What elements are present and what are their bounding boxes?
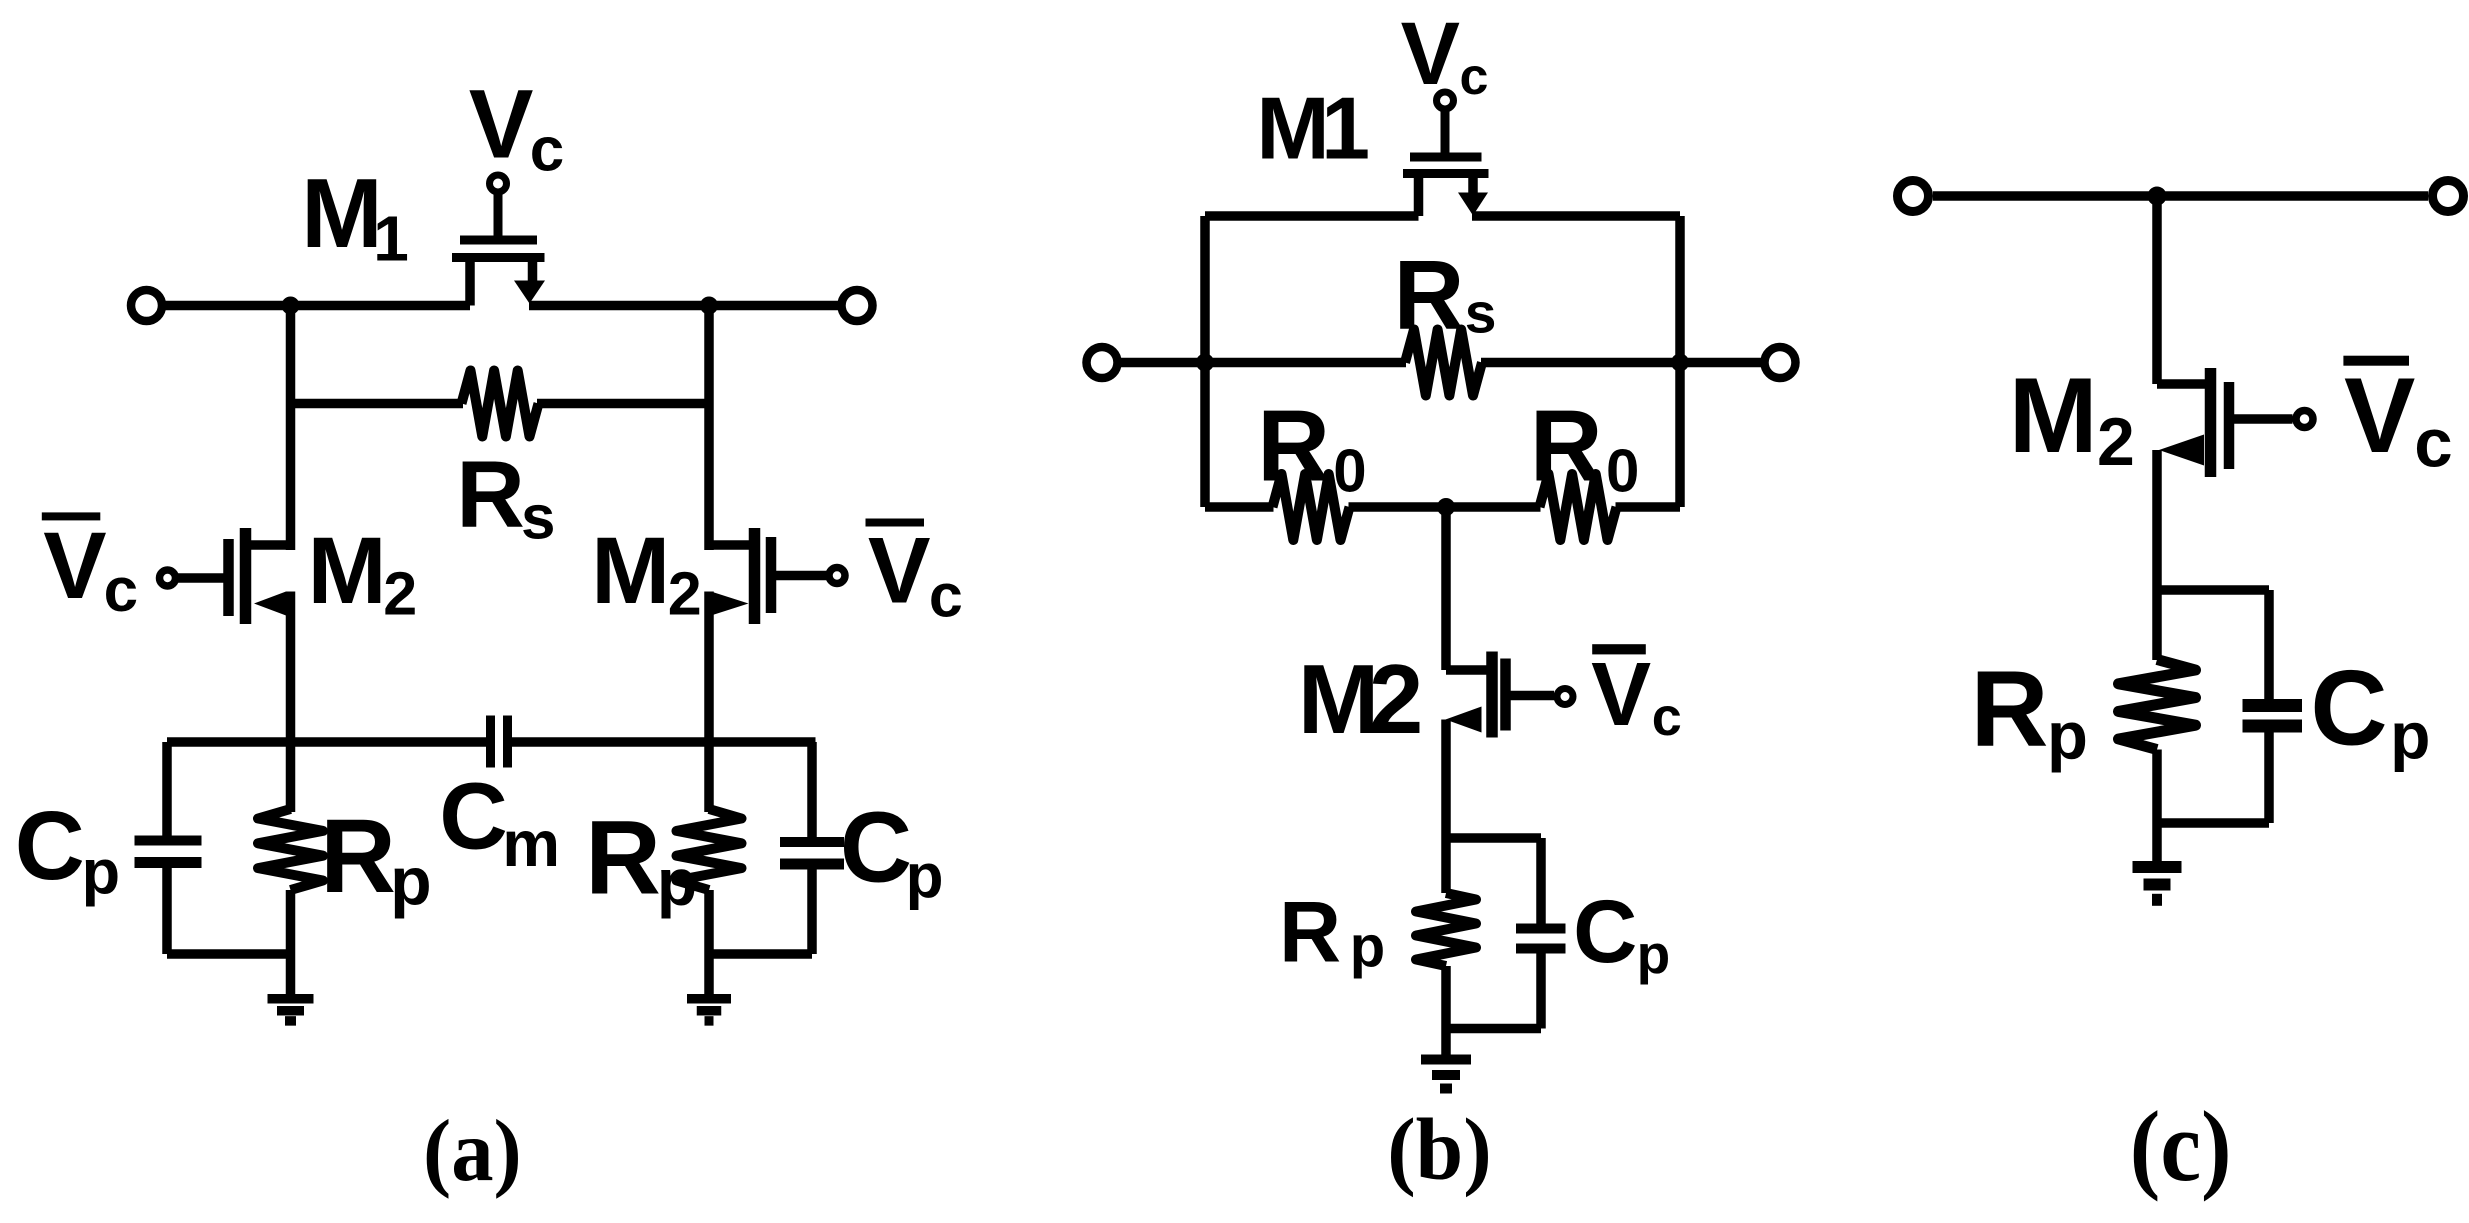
svg-text:c: c xyxy=(2414,405,2452,482)
svg-text:(a): (a) xyxy=(423,1103,522,1200)
svg-text:V: V xyxy=(43,513,106,619)
svg-text:R: R xyxy=(320,798,396,915)
svg-text:c: c xyxy=(1460,48,1489,106)
svg-text:(b): (b) xyxy=(1387,1102,1492,1199)
svg-text:p: p xyxy=(1350,914,1385,979)
svg-text:m: m xyxy=(502,807,560,880)
svg-text:c: c xyxy=(530,116,564,185)
svg-text:c: c xyxy=(929,561,963,629)
svg-text:V: V xyxy=(469,69,534,178)
svg-text:M: M xyxy=(301,158,383,268)
svg-text:2: 2 xyxy=(1369,644,1424,754)
svg-text:C: C xyxy=(1573,881,1637,981)
svg-text:V: V xyxy=(1591,645,1651,745)
svg-text:R: R xyxy=(456,442,525,548)
svg-text:M: M xyxy=(591,518,670,624)
svg-text:R: R xyxy=(1279,885,1341,981)
svg-text:p: p xyxy=(906,842,944,911)
svg-text:p: p xyxy=(657,845,697,919)
svg-text:p: p xyxy=(2047,698,2088,773)
svg-text:s: s xyxy=(521,483,555,552)
svg-text:(c): (c) xyxy=(2130,1090,2232,1202)
svg-text:M: M xyxy=(308,518,387,624)
svg-text:c: c xyxy=(104,556,138,625)
svg-text:2: 2 xyxy=(383,560,417,628)
svg-text:1: 1 xyxy=(1321,79,1370,178)
svg-text:0: 0 xyxy=(1606,438,1639,505)
svg-text:C: C xyxy=(840,792,912,904)
svg-text:C: C xyxy=(15,791,85,900)
svg-text:2: 2 xyxy=(668,560,702,628)
svg-text:c: c xyxy=(1652,687,1682,747)
svg-text:M: M xyxy=(1298,644,1380,754)
svg-text:1: 1 xyxy=(373,203,409,275)
svg-text:R: R xyxy=(585,799,661,916)
svg-text:R: R xyxy=(1971,647,2049,768)
svg-text:p: p xyxy=(82,837,120,907)
svg-text:V: V xyxy=(1401,3,1460,103)
svg-text:V: V xyxy=(2344,355,2415,475)
svg-text:R: R xyxy=(1530,390,1603,502)
svg-text:R: R xyxy=(1257,390,1330,502)
svg-text:2: 2 xyxy=(2097,404,2135,480)
svg-text:M: M xyxy=(1256,79,1329,178)
svg-text:p: p xyxy=(2390,698,2430,772)
svg-text:V: V xyxy=(868,517,931,622)
svg-text:p: p xyxy=(1637,923,1671,985)
svg-text:0: 0 xyxy=(1333,438,1366,505)
svg-text:C: C xyxy=(439,764,508,870)
svg-text:s: s xyxy=(1465,282,1497,346)
svg-text:M: M xyxy=(2009,355,2098,475)
svg-text:R: R xyxy=(1394,240,1465,350)
svg-text:C: C xyxy=(2310,648,2387,768)
svg-text:p: p xyxy=(390,843,432,919)
